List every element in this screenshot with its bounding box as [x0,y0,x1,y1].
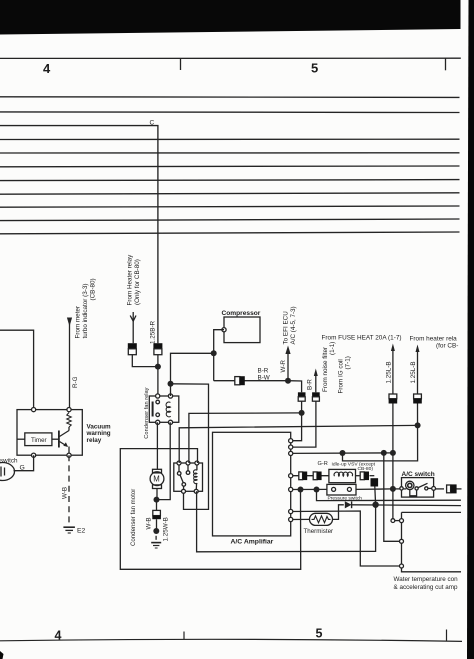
connector pair B (VSV chain) [313,472,321,481]
dashed wire W-B to ground E2 [68,455,70,526]
connector pair C (after VSV) [360,472,369,481]
condenser fan relay contact circles [156,400,160,416]
wire bus line 2 [0,111,460,114]
svg-text:G-R: G-R [318,461,328,467]
water temperature switch box [402,511,462,513]
svg-text:(1-1): (1-1) [329,342,336,355]
wire loop branch b to right edge [317,490,461,501]
wire bus line 1 [0,96,460,99]
wire water temp terminal 2 feed [384,453,402,541]
svg-text:1.25L-B: 1.25L-B [410,361,417,383]
A/C switch lamp [406,481,417,496]
header ruler line [0,58,461,70]
wire C line continues to relay [157,355,159,396]
heater relay arrow and wire [416,345,420,395]
condenser fan motor M [150,469,164,499]
wire relay box edge to timer [17,438,25,440]
A/C switch contacts [400,483,436,490]
A C switch oval (left edge, cut off) [0,463,15,481]
wire B-R B-W [214,380,288,382]
diode D [345,501,352,508]
svg-text:5: 5 [316,627,323,641]
connector (heater relay wire) [128,343,137,354]
svg-text:turbo indicator (3-3): turbo indicator (3-3) [82,284,89,339]
amp terminal 4 wire to VSV chain [291,475,329,477]
junction node A/C switch feed [390,486,396,492]
wire bus line 9 [0,206,460,207]
amp terminal 6 wire over thermistor [291,511,402,566]
wire relay coil bottom down to motor return [157,422,171,499]
svg-text:A/C switch: A/C switch [402,471,435,478]
svg-text:(Only for CB-80): (Only for CB-80) [134,259,141,305]
condenser fan relay box [149,396,179,422]
wire thermistor to diode [333,505,344,520]
water temp box terminals [400,519,404,568]
connector C1 [298,392,306,401]
connector (heater relay right) [413,394,422,404]
relay No.2 box [174,463,203,491]
label From meter turbo indicator (3-3) (CB-80) [75,278,97,338]
label From noise filter (1-1) [322,342,336,392]
junction node pressure wire a [298,487,304,493]
wire corner connector down to diode junction [374,487,377,505]
wire bus line 10 [0,219,460,221]
svg-text:1.25B-R: 1.25B-R [150,320,157,344]
wire to corner connector [370,475,375,477]
svg-text:To EFI ECU: To EFI ECU [283,311,290,345]
label Water temperature con & accelerating cut amp [394,576,459,591]
svg-text:1.25W-B: 1.25W-B [163,517,170,541]
junction node compressor feed [211,350,217,356]
svg-text:B-W: B-W [258,374,270,381]
svg-text:W-B: W-B [62,487,69,499]
connector C2 [312,392,320,401]
connector (C line) [153,343,162,354]
thermistor [310,513,333,525]
relay No.2 contact arm [177,463,189,491]
wire bus line 11 [0,232,460,234]
junction node coil feed branch [168,381,174,387]
terminal circles of vacuum warning relay [31,408,71,458]
wire bus line 3 turning down at C [0,126,158,344]
junction node W2 fuse heat [390,450,396,456]
svg-text:(7-1): (7-1) [345,356,352,369]
svg-text:A/C (4-5, 7-3): A/C (4-5, 7-3) [290,306,297,344]
junction node motor return [154,497,160,503]
label Idle-up VSV (except CB-80) [332,462,376,473]
top black scan bar [0,0,461,35]
wire diode to junction and right edge [352,504,461,507]
svg-text:From noise filter: From noise filter [322,347,329,392]
connector pair A (VSV chain) [299,472,307,481]
svg-text:A/C Amplifiar: A/C Amplifiar [231,539,274,546]
wire motor down to connector [156,500,158,511]
svg-text:From meter: From meter [75,306,82,339]
label B-R B-W [258,367,270,381]
wire bus line 8 [0,193,460,194]
ground E2 [63,527,75,533]
wire relay coil top up and right to compressor junction [171,353,214,396]
junction node W1 heater relay [415,422,421,428]
svg-text:1.25L-B: 1.25L-B [386,361,393,383]
footer ruler line [0,630,462,642]
From meter turbo indicator arrow [67,318,72,410]
svg-text:B-R: B-R [258,367,269,374]
svg-text:E2: E2 [77,528,86,535]
svg-text:Timer: Timer [31,437,47,444]
wire fuse-heat line to water temp terminal 1 [391,519,401,523]
svg-text:4: 4 [43,61,51,76]
A/C switch box [402,478,434,498]
timer box [25,433,52,446]
label From Heater relay (Only for CB-80) [127,254,142,306]
svg-text:Water temperature con: Water temperature con [394,576,459,583]
wire branch from coil feed to relay2 bottom-left [171,384,209,510]
condenser fan relay coil [166,402,171,417]
wire junction into A/C switch box [393,488,406,490]
wire relay contact bottom to motor [156,422,158,469]
compressor terminal [222,328,226,332]
svg-text:5: 5 [311,61,318,76]
svg-text:From Heater relay: From Heater relay [127,254,134,306]
svg-text:& accelerating cut amp: & accelerating cut amp [394,584,459,591]
idle-up VSV box with coil [329,469,356,482]
connector (fuse heat) [389,394,398,404]
condenser fan relay contact plate [152,402,154,417]
connector on B-R B-W wire [235,376,245,385]
long wire from relay No.2 coil bottom to diode junction [197,491,376,552]
wire W2 amp terminal 3 [291,452,393,455]
vacuum warning relay box [17,410,82,456]
corner connector block [371,478,379,486]
svg-text:B-R: B-R [307,379,314,390]
junction node on C1 wire [299,410,305,416]
wire connector to right edge [457,488,462,490]
junction node diode wire [372,502,378,508]
wire fuse-heat line down [392,404,394,521]
bottom-left black scan mark [0,651,4,659]
svg-text:Thermister: Thermister [304,528,334,535]
svg-text:M: M [153,475,160,484]
svg-text:Condenser fan motor: Condenser fan motor [130,489,137,546]
dash to ground [155,536,157,540]
svg-text:4: 4 [55,629,62,643]
right black scan bar [467,0,474,659]
junction node W2 water temp tap [381,450,387,456]
junction node pressure wire b [314,487,320,493]
wire pressure switch to A/C switch junction [356,488,393,491]
wire A/C switch to connector [436,488,445,490]
wire compressor to junction [214,330,224,381]
wire bus line 6 [0,165,460,168]
svg-text:W-R: W-R [280,360,287,373]
junction node W2 IG coil stub [340,450,346,456]
splice node [153,528,159,534]
connector (A/C switch out) [447,484,457,493]
FUSE HEAT arrow and wire [391,344,395,395]
To EFI ECU arrow up [285,346,290,381]
wire bus line 7 [0,180,460,181]
wire heater-relay line down and to W2 stub [343,404,418,461]
junction node on C line [155,364,161,370]
wire junction to connector C1 [288,381,302,393]
wire VSV to connector C [356,475,360,477]
svg-text:(CB-80): (CB-80) [90,278,97,300]
wire timer to transistor base [52,438,59,440]
label To EFI ECU A/C (4-5, 7-3) [283,306,298,344]
wire G from switch oval to relay terminal [14,455,34,471]
wire C1 down to amp terminal 1 [291,401,302,441]
relay No.2 terminals [177,461,199,493]
wire bus line 5 [0,152,460,154]
condenser fan relay terminals [156,394,173,425]
svg-text:Compressor: Compressor [222,310,261,317]
long return wire loop around condenser fan motor [120,449,300,570]
svg-text:switch: switch [0,458,18,465]
wire connector to splice [156,519,158,531]
amp terminal 7 wire to thermistor [291,518,310,520]
wire W1 relay No.2 left to heater-relay junction [179,425,417,463]
A/C amplifier box [213,432,291,536]
wire feed to vacuum warning relay from left edge [0,330,34,409]
svg-text:From FUSE HEAT 20A (1-7): From FUSE HEAT 20A (1-7) [322,335,402,342]
transistor Q (vacuum warning relay) [59,427,69,455]
junction node W-R [285,378,291,384]
relay No.2 coil [193,463,197,491]
horizontal wiring bus lines [0,97,460,234]
label Vacuum warning relay [86,423,112,444]
compressor box [224,317,260,343]
wire from connector down to junction on C line [132,355,158,367]
label From IG coil (7-1) [338,356,352,393]
svg-text:From heater rela: From heater rela [410,336,458,343]
ground (motor) [151,543,161,548]
amp terminal 5 wire (pressure switch) [291,488,327,490]
From noise filter arrow [314,369,318,393]
amp terminals [289,439,293,522]
svg-text:relay: relay [87,437,102,444]
svg-text:W-B: W-B [146,517,153,529]
pressure switch box [327,484,356,495]
connector (motor ground wire) [152,510,161,519]
svg-text:From IG coil: From IG coil [338,359,345,393]
svg-text:(for CB-: (for CB- [436,343,458,350]
From Heater relay arrow down [130,316,136,322]
wire bus line 4 [0,138,460,140]
vacuum warning relay resistor R [67,413,71,428]
wire C2 down to amp terminal 2 [291,401,316,447]
label From heater relay (for CB-81) [410,336,459,350]
svg-text:R-G: R-G [72,376,79,388]
wire junction left to relay No.2 middle [189,413,302,463]
